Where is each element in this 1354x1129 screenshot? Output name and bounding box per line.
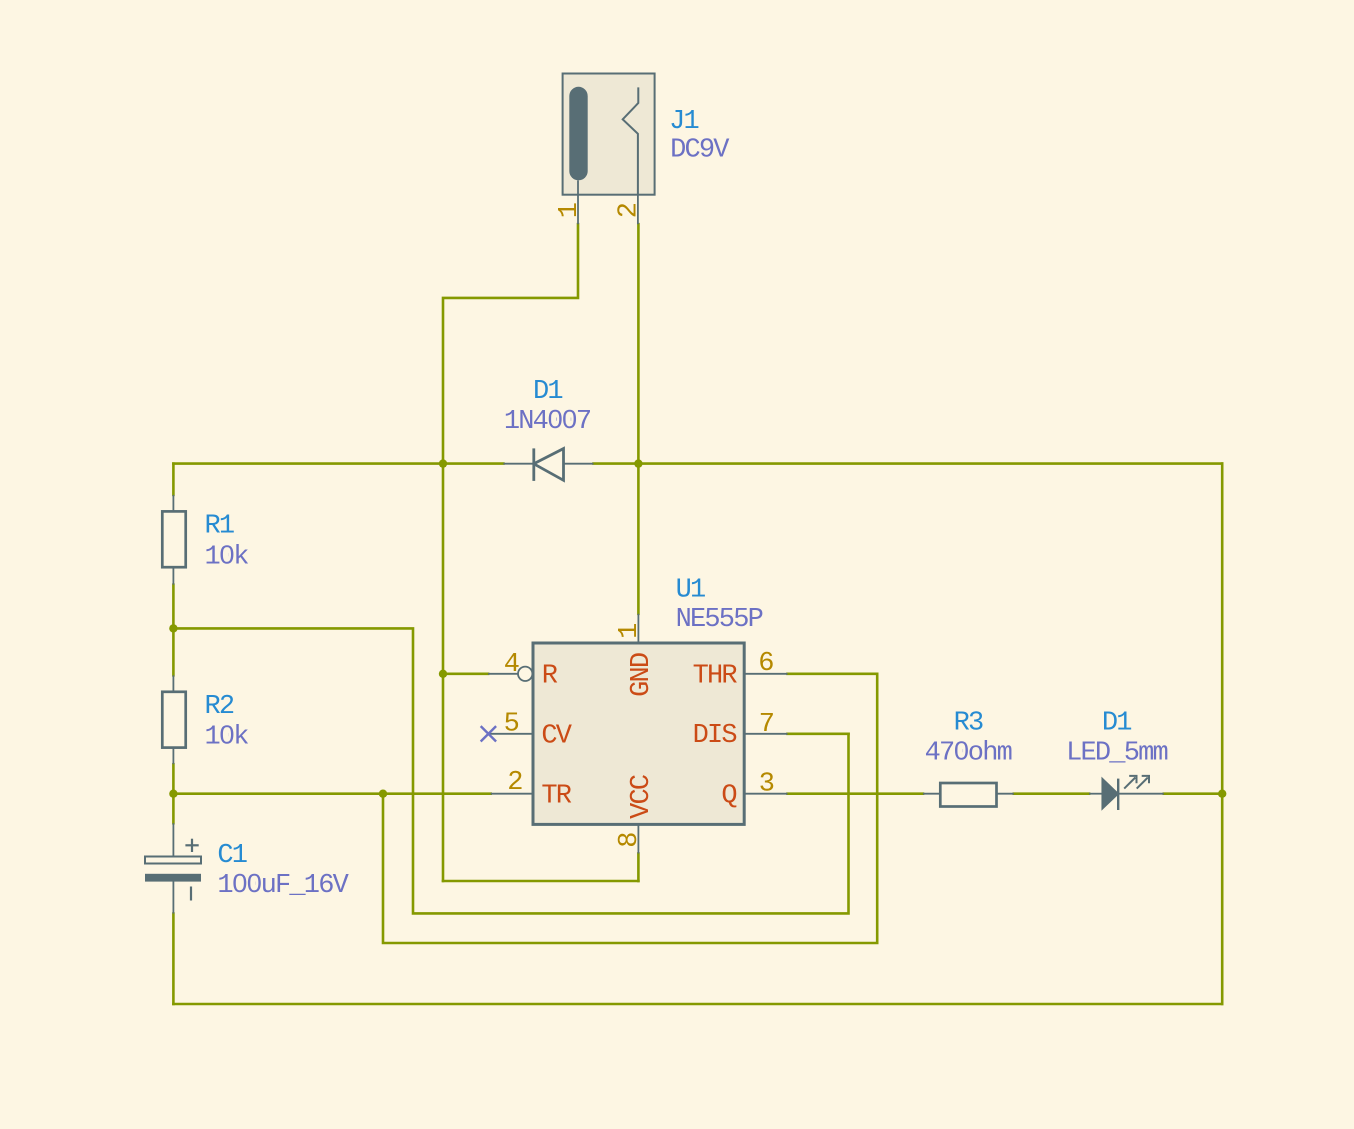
wire DIS pin7 stub to route: [788, 732, 849, 735]
svg-text:470ohm: 470ohm: [925, 738, 1012, 768]
LED D1 light arrow 1: [1124, 778, 1135, 789]
svg-text:D1: D1: [1102, 708, 1131, 738]
diode D1 anode pin: [503, 463, 533, 465]
resistor R1 body: [162, 511, 185, 567]
IC U1 pin 5 CV: [488, 733, 533, 735]
node junction VCC vertical / pin4 branch: [439, 670, 447, 678]
IC U1 pin 7 DIS: [744, 733, 787, 735]
diode D1 cathode bar: [532, 448, 535, 481]
wire LED to right rail: [1164, 792, 1222, 795]
svg-text:R1: R1: [205, 512, 234, 542]
connector J1 pin 2: [637, 195, 639, 225]
wire TR pin2 row from left rail: [173, 792, 490, 795]
IC U1 pin 6 THR: [744, 673, 787, 675]
svg-text:7: 7: [759, 710, 774, 740]
svg-text:8: 8: [615, 833, 645, 848]
wire J1 pin1 down-left-down to VCC rail: [443, 224, 578, 463]
svg-text:Q: Q: [721, 782, 736, 812]
svg-text:LED_5mm: LED_5mm: [1066, 738, 1167, 768]
capacitor C1 plus sign: [185, 844, 198, 846]
connector J1 spring contact: [623, 87, 639, 194]
wire bottom rail: [173, 1003, 1222, 1006]
wire R3 to LED: [1014, 792, 1089, 795]
resistor R1 top pin: [172, 495, 174, 512]
svg-text:THR: THR: [693, 661, 738, 691]
LED D1 cathode pin: [1118, 793, 1164, 795]
resistor R2 body: [162, 692, 185, 748]
svg-text:1N4007: 1N4007: [504, 407, 591, 437]
diode D1 cathode pin: [564, 463, 594, 465]
svg-text:1: 1: [555, 203, 585, 218]
svg-text:4: 4: [504, 650, 519, 680]
capacitor C1 positive pin: [172, 823, 174, 856]
svg-text:R2: R2: [205, 692, 234, 722]
svg-text:R: R: [542, 661, 558, 691]
resistor R3 body: [940, 783, 996, 807]
wire TR node down-right-up to THR route: [383, 674, 877, 943]
resistor R3 left pin: [923, 793, 940, 795]
node junction R1/R2/DIS: [169, 624, 177, 632]
IC U1 pin 2 TR: [491, 793, 533, 795]
LED D1 anode pin: [1089, 793, 1102, 795]
svg-text:D1: D1: [533, 377, 562, 407]
svg-text:2: 2: [615, 203, 645, 218]
IC U1 pin 1 GND (top): [637, 614, 639, 643]
svg-text:VCC: VCC: [627, 774, 657, 819]
wire R1/R2 node to DIS pin7 route: [173, 628, 848, 913]
svg-text:C1: C1: [217, 841, 246, 871]
wire branch to pin4 R: [443, 672, 488, 675]
svg-text:J1: J1: [669, 107, 698, 137]
node junction top rail / GND vertical: [634, 459, 642, 467]
capacitor C1 minus sign: [190, 887, 192, 901]
wire VCC vertical from top rail: [442, 464, 445, 881]
no-connect X on pin 5: [481, 726, 496, 741]
wire J1 pin2 down to U1 pin1 (GND net vertical): [637, 224, 640, 614]
IC U1 pin 8 VCC (bottom): [637, 824, 639, 853]
svg-text:U1: U1: [676, 576, 705, 606]
connector J1 body outline: [563, 74, 655, 195]
resistor R2 top pin: [172, 675, 174, 692]
wire between R1 and R2: [172, 585, 175, 676]
svg-text:NE555P: NE555P: [676, 605, 763, 635]
resistor R2 bottom pin: [172, 748, 174, 765]
node junction R2/C1/TR: [169, 790, 177, 798]
wire VCC route up to pin8: [637, 854, 640, 882]
svg-text:R3: R3: [954, 708, 983, 738]
node junction LED / right rail: [1218, 790, 1226, 798]
svg-text:CV: CV: [541, 722, 572, 752]
IC U1 NE555P body: [533, 643, 744, 824]
wire left rail above R1: [172, 464, 175, 495]
IC U1 pin 4 R with inversion bubble: [488, 673, 518, 675]
svg-text:DIS: DIS: [693, 721, 737, 751]
connector J1 barrel contact: [569, 87, 587, 181]
svg-text:3: 3: [759, 770, 774, 800]
svg-text:1: 1: [615, 624, 645, 639]
wire Q pin3 to R3: [788, 792, 924, 795]
wire top rail right segment from diode: [594, 462, 1223, 465]
LED D1 cathode bar: [1117, 779, 1119, 810]
capacitor C1 negative pin: [172, 881, 174, 914]
LED D1 triangle: [1102, 778, 1118, 809]
resistor R1 bottom pin: [172, 567, 174, 585]
svg-text:2: 2: [507, 768, 522, 798]
wire THR pin6 stub to route: [788, 672, 878, 675]
wire VCC route horizontal: [443, 880, 638, 883]
node junction TR / THR branch: [379, 790, 387, 798]
svg-text:GND: GND: [627, 653, 657, 697]
resistor R3 right pin: [997, 793, 1014, 795]
masks hiding Liberation Mono zero center dots (KiCad stroke font has plain 0): [223, 415, 962, 888]
capacitor C1 bottom plate: [145, 874, 201, 882]
diode D1 triangle: [534, 449, 564, 481]
wire top rail left segment to diode: [173, 462, 503, 465]
svg-text:6: 6: [758, 649, 773, 679]
svg-text:TR: TR: [541, 782, 571, 812]
svg-text:5: 5: [504, 710, 519, 740]
connector J1 pin 1: [577, 180, 579, 224]
wire between R2 and C1: [172, 764, 175, 823]
LED D1 light arrow 2: [1137, 778, 1148, 789]
capacitor C1 top plate: [145, 857, 201, 864]
node junction top rail / J1 pin1 branch: [439, 459, 447, 467]
wire right rail: [1221, 464, 1224, 1004]
IC U1 pin 3 Q: [744, 793, 787, 795]
svg-text:DC9V: DC9V: [670, 136, 730, 166]
wire C1 down to bottom rail: [172, 914, 175, 1004]
